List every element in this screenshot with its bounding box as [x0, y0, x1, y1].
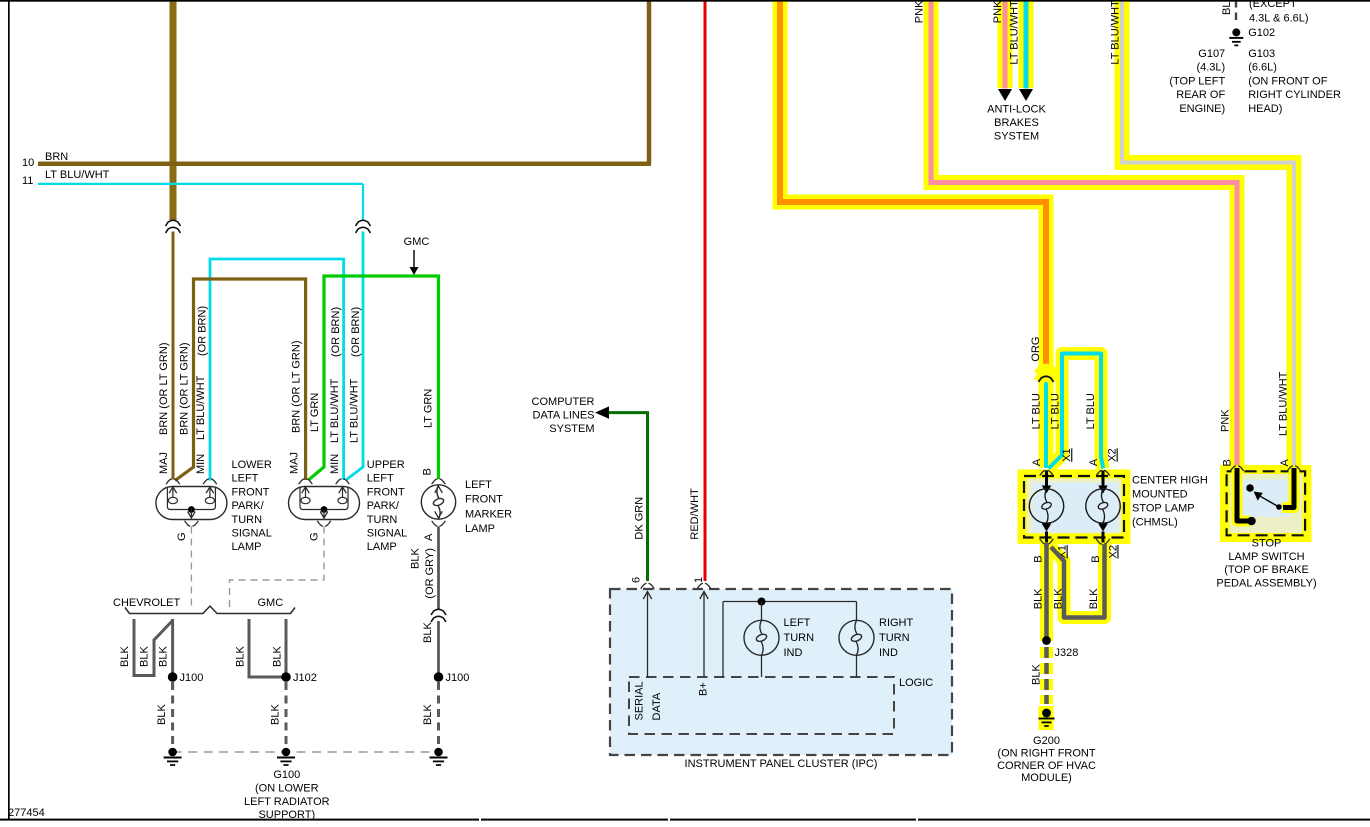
svg-text:HEAD): HEAD) — [1248, 103, 1282, 115]
svg-text:DATA: DATA — [651, 692, 663, 720]
svg-text:PNK: PNK — [914, 0, 926, 23]
svg-text:A: A — [423, 533, 435, 541]
svg-text:BLK: BLK — [1031, 664, 1043, 685]
svg-text:MODULE): MODULE) — [1021, 772, 1072, 784]
svg-text:MARKER: MARKER — [465, 508, 512, 520]
svg-text:ANTI-LOCK: ANTI-LOCK — [987, 104, 1046, 116]
svg-text:PEDAL ASSEMBLY): PEDAL ASSEMBLY) — [1216, 577, 1316, 589]
svg-text:INSTRUMENT PANEL CLUSTER (IPC): INSTRUMENT PANEL CLUSTER (IPC) — [685, 758, 878, 770]
svg-text:LT BLU/WHT: LT BLU/WHT — [349, 378, 361, 443]
svg-text:BRAKES: BRAKES — [994, 117, 1039, 129]
svg-text:G100: G100 — [273, 769, 300, 781]
svg-text:(OR GRY): (OR GRY) — [424, 548, 436, 599]
svg-text:LOWER: LOWER — [232, 459, 272, 471]
svg-text:TURN: TURN — [232, 514, 263, 526]
svg-text:(OR BRN): (OR BRN) — [350, 307, 362, 357]
svg-text:CORNER OF HVAC: CORNER OF HVAC — [997, 760, 1096, 772]
svg-text:BLK: BLK — [1033, 588, 1045, 609]
svg-text:STOP LAMP: STOP LAMP — [1132, 503, 1195, 515]
svg-text:MOUNTED: MOUNTED — [1132, 489, 1188, 501]
svg-text:DATA LINES: DATA LINES — [533, 410, 595, 422]
svg-text:BLK: BLK — [119, 646, 131, 667]
svg-text:LT BLU/WHT: LT BLU/WHT — [1008, 0, 1020, 65]
svg-text:LT BLU/WHT: LT BLU/WHT — [45, 169, 110, 181]
svg-text:BLK: BLK — [272, 646, 284, 667]
svg-text:PARK/: PARK/ — [232, 500, 265, 512]
svg-text:CHEVROLET: CHEVROLET — [113, 597, 181, 609]
svg-text:SIGNAL: SIGNAL — [367, 528, 407, 540]
svg-text:11: 11 — [22, 175, 33, 187]
svg-text:277454: 277454 — [8, 807, 45, 819]
svg-text:STOP: STOP — [1252, 538, 1282, 550]
svg-text:MAJ: MAJ — [158, 452, 170, 474]
svg-text:LT BLU: LT BLU — [1031, 393, 1043, 429]
svg-text:LT GRN: LT GRN — [309, 393, 321, 432]
svg-text:LT BLU/WHT: LT BLU/WHT — [1277, 371, 1289, 436]
svg-text:FRONT: FRONT — [465, 494, 503, 506]
svg-text:BLK: BLK — [409, 548, 421, 569]
svg-text:B+: B+ — [698, 682, 710, 696]
svg-text:LT BLU/WHT: LT BLU/WHT — [195, 375, 207, 440]
svg-text:X2: X2 — [1107, 448, 1119, 461]
svg-text:LT GRN: LT GRN — [422, 389, 434, 428]
svg-text:BLK: BLK — [270, 704, 282, 725]
svg-text:J100: J100 — [180, 672, 204, 684]
svg-text:BLK: BLK — [422, 704, 434, 725]
svg-text:PNK: PNK — [992, 0, 1004, 23]
svg-text:B: B — [1090, 555, 1102, 562]
svg-text:RIGHT: RIGHT — [879, 617, 914, 629]
svg-text:LT BLU: LT BLU — [1085, 393, 1097, 429]
svg-text:G103: G103 — [1248, 48, 1275, 60]
svg-text:BRN (OR LT GRN): BRN (OR LT GRN) — [290, 341, 302, 434]
svg-text:X1: X1 — [1061, 448, 1073, 461]
svg-text:COMPUTER: COMPUTER — [532, 396, 595, 408]
svg-text:J102: J102 — [293, 672, 317, 684]
svg-text:TURN: TURN — [879, 632, 910, 644]
svg-text:BLK: BLK — [1088, 588, 1100, 609]
svg-text:SYSTEM: SYSTEM — [994, 131, 1039, 143]
svg-text:TURN: TURN — [784, 632, 815, 644]
svg-text:BLK: BLK — [158, 646, 170, 667]
svg-text:DK GRN: DK GRN — [633, 497, 645, 540]
svg-text:LAMP: LAMP — [465, 523, 495, 535]
svg-text:ENGINE): ENGINE) — [1179, 103, 1225, 115]
svg-text:BRN: BRN — [45, 151, 68, 163]
svg-text:(OR BRN): (OR BRN) — [330, 307, 342, 357]
svg-text:(TOP OF BRAKE: (TOP OF BRAKE — [1224, 564, 1309, 576]
svg-text:1: 1 — [693, 577, 705, 583]
svg-text:(OR BRN): (OR BRN) — [197, 306, 209, 356]
svg-text:J328: J328 — [1055, 647, 1079, 659]
svg-text:(4.3L): (4.3L) — [1196, 62, 1225, 74]
svg-text:A: A — [1088, 458, 1100, 466]
svg-text:(ON RIGHT FRONT: (ON RIGHT FRONT — [997, 747, 1095, 759]
svg-text:FRONT: FRONT — [232, 486, 270, 498]
svg-text:MIN: MIN — [195, 454, 207, 474]
svg-text:BLK: BLK — [156, 704, 168, 725]
svg-text:BRN (OR LT GRN): BRN (OR LT GRN) — [158, 343, 170, 436]
svg-text:LAMP SWITCH: LAMP SWITCH — [1228, 551, 1304, 563]
svg-text:BLK: BLK — [235, 646, 247, 667]
svg-text:PARK/: PARK/ — [367, 500, 400, 512]
svg-text:TURN: TURN — [367, 514, 398, 526]
svg-text:(CHMSL): (CHMSL) — [1132, 517, 1178, 529]
svg-text:X2: X2 — [1107, 545, 1119, 558]
svg-text:G: G — [176, 532, 188, 541]
svg-text:A: A — [1279, 459, 1291, 467]
svg-text:LOGIC: LOGIC — [899, 677, 933, 689]
svg-text:4.3L & 6.6L): 4.3L & 6.6L) — [1249, 13, 1309, 25]
svg-text:BLU: BLU — [1221, 0, 1233, 15]
svg-text:J100: J100 — [446, 672, 470, 684]
svg-text:SERIAL: SERIAL — [634, 681, 646, 720]
svg-text:SUPPORT): SUPPORT) — [258, 809, 315, 821]
svg-text:BLK: BLK — [422, 622, 434, 643]
svg-text:GMC: GMC — [404, 236, 430, 248]
svg-text:LAMP: LAMP — [232, 541, 262, 553]
svg-text:10: 10 — [22, 157, 34, 169]
svg-text:G: G — [309, 532, 321, 541]
svg-text:LEFT: LEFT — [232, 473, 259, 485]
svg-text:GMC: GMC — [258, 597, 284, 609]
svg-text:LEFT: LEFT — [465, 479, 492, 491]
svg-text:LEFT RADIATOR: LEFT RADIATOR — [244, 796, 330, 808]
svg-text:(6.6L): (6.6L) — [1248, 62, 1277, 74]
svg-text:(TOP LEFT: (TOP LEFT — [1169, 75, 1225, 87]
svg-text:LAMP: LAMP — [367, 541, 397, 553]
svg-text:G107: G107 — [1198, 48, 1225, 60]
svg-text:IND: IND — [784, 647, 803, 659]
svg-text:CENTER HIGH: CENTER HIGH — [1132, 475, 1208, 487]
svg-text:BLK: BLK — [139, 646, 151, 667]
svg-text:SYSTEM: SYSTEM — [549, 423, 594, 435]
svg-text:UPPER: UPPER — [367, 459, 405, 471]
svg-text:MAJ: MAJ — [288, 452, 300, 474]
svg-text:RED/WHT: RED/WHT — [689, 488, 701, 540]
svg-text:LEFT: LEFT — [784, 617, 811, 629]
svg-text:G102: G102 — [1248, 27, 1275, 39]
svg-text:LT BLU: LT BLU — [1049, 393, 1061, 429]
svg-text:6: 6 — [631, 577, 643, 583]
svg-text:ORG: ORG — [1030, 337, 1042, 362]
svg-text:LT BLU/WHT: LT BLU/WHT — [329, 378, 341, 443]
svg-text:(ON LOWER: (ON LOWER — [255, 782, 319, 794]
svg-text:IND: IND — [879, 647, 898, 659]
svg-text:SIGNAL: SIGNAL — [232, 528, 272, 540]
svg-text:FRONT: FRONT — [367, 486, 405, 498]
svg-text:MIN: MIN — [329, 454, 341, 474]
svg-text:(ON FRONT OF: (ON FRONT OF — [1248, 75, 1328, 87]
svg-text:B: B — [1222, 459, 1234, 466]
svg-text:PNK: PNK — [1220, 409, 1232, 432]
svg-text:G200: G200 — [1033, 735, 1060, 747]
svg-text:LT BLU/WHT: LT BLU/WHT — [1110, 0, 1122, 65]
svg-text:RIGHT CYLINDER: RIGHT CYLINDER — [1248, 89, 1341, 101]
svg-text:B: B — [1033, 555, 1045, 562]
svg-text:LEFT: LEFT — [367, 473, 394, 485]
svg-text:A: A — [1031, 458, 1043, 466]
svg-text:BRN (OR LT GRN): BRN (OR LT GRN) — [179, 343, 191, 436]
svg-text:B: B — [422, 468, 434, 475]
svg-text:REAR OF: REAR OF — [1176, 89, 1225, 101]
